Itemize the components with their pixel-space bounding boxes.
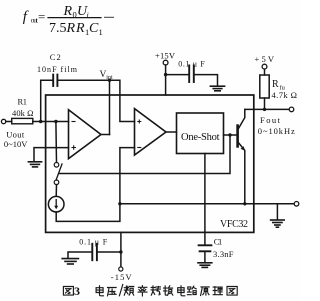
capacitor 0.1uF bottom plates <box>91 244 93 260</box>
wire comparator output to one-shot <box>166 131 177 133</box>
wire switch to current source <box>55 185 57 197</box>
ground (op-amp + input) <box>28 162 41 167</box>
svg-text:R1: R1 <box>18 97 28 107</box>
capacitor C2 plates <box>52 75 54 86</box>
current source I1 circle <box>48 196 64 212</box>
+5V terminal circle <box>262 64 267 69</box>
node dot base/control <box>228 133 231 136</box>
wire resistor to +5V <box>264 69 266 75</box>
svg-text:i: i <box>87 11 89 20</box>
wire op-amp + input to ground <box>34 148 69 162</box>
svg-text:10nF film: 10nF film <box>37 65 78 74</box>
node dot pull-up <box>263 108 266 111</box>
ground (common) <box>271 220 285 227</box>
wire comparator - input to common <box>120 148 135 204</box>
svg-text:C: C <box>89 21 99 36</box>
wire input to R1 <box>6 121 12 123</box>
svg-text:0~10kHz: 0~10kHz <box>258 126 295 136</box>
one-shot timing wire to C1 <box>204 154 206 245</box>
node dot +15V cap branch <box>164 73 167 76</box>
comparator U2 triangle <box>135 109 167 155</box>
wire to bypass cap <box>166 74 189 76</box>
-15V wire from box bottom <box>120 232 122 266</box>
collector rail to Fout <box>245 108 289 110</box>
svg-text:+15V: +15V <box>155 51 176 61</box>
common ground stem <box>276 204 278 220</box>
stray dash right of formula <box>105 16 114 18</box>
svg-text:One-Shot: One-Shot <box>181 132 220 143</box>
wire R1 to op-amp input <box>33 121 69 123</box>
svg-text:3: 3 <box>74 284 80 298</box>
transistor Q1 base bar <box>236 126 239 147</box>
wire one-shot to transistor base <box>224 134 238 136</box>
resistor R1 <box>12 118 33 123</box>
svg-text:C1: C1 <box>214 237 223 247</box>
wire current source to common <box>56 204 120 222</box>
wire cap to ground left <box>68 252 91 258</box>
one-shot U3 box <box>177 113 224 154</box>
op-amp U1 plus mark <box>72 146 75 149</box>
caption figure 3 chinese text <box>63 284 237 298</box>
wire C1 to ground <box>204 252 206 262</box>
wire to bottom bypass cap <box>98 251 121 253</box>
svg-text:Fout: Fout <box>260 115 281 125</box>
svg-text:0.1 μ F: 0.1 μ F <box>178 60 205 69</box>
svg-text:0~10V: 0~10V <box>4 139 28 149</box>
transistor Q1 emitter <box>238 142 245 204</box>
svg-text:0.1 μ F: 0.1 μ F <box>79 237 108 246</box>
wire Vint to comparator + input <box>110 80 135 121</box>
+15V terminal circle <box>163 60 168 65</box>
svg-text:=: = <box>38 9 45 24</box>
svg-text:C2: C2 <box>50 52 61 62</box>
svg-text:R: R <box>272 79 279 90</box>
transistor Q1 emitter arrow <box>241 146 245 150</box>
node dot switch branch <box>54 120 57 123</box>
wire +15V to box top <box>165 65 167 95</box>
op-amp U1 minus mark <box>72 121 75 123</box>
capacitor C2 vertical wire <box>41 80 53 121</box>
node dot -15V cap branch <box>119 250 122 253</box>
wire C2 to Vint node <box>58 79 109 81</box>
svg-text:+5V: +5V <box>255 54 275 64</box>
svg-text:7.5: 7.5 <box>49 21 67 36</box>
capacitor C1 plates <box>199 244 212 246</box>
wire op-amp output to vertical <box>101 134 110 136</box>
op-amp U1 integrator triangle <box>69 110 102 159</box>
Fout terminal circle <box>289 107 294 112</box>
svg-text:3.3nF: 3.3nF <box>213 249 234 259</box>
switch S1 top contact <box>54 163 59 168</box>
common line <box>120 203 294 205</box>
-15V terminal circle <box>119 267 123 271</box>
comparator U2 minus mark <box>138 147 141 149</box>
ground (top bypass) <box>210 86 224 91</box>
formula fraction bar <box>48 17 101 19</box>
wire cap to ground <box>195 75 218 86</box>
resistor Rfu pull-up <box>260 75 269 98</box>
svg-text:VFC32: VFC32 <box>220 219 248 230</box>
switch control line from one-shot <box>59 135 230 174</box>
node dot common-left <box>118 202 121 205</box>
svg-text:4.7k Ω: 4.7k Ω <box>272 90 298 100</box>
wire input node down to switch <box>55 122 58 163</box>
formula f_out = R0*Ui / 7.5*R*R1*C1 <box>23 4 103 37</box>
svg-text:40k Ω: 40k Ω <box>12 108 34 118</box>
current source I1 arrow <box>55 200 57 207</box>
svg-text:-15V: -15V <box>111 272 133 282</box>
wire Vint down to op-amp output <box>109 80 111 134</box>
common terminal circle <box>294 202 299 207</box>
switch S1 arm <box>56 164 62 180</box>
label Vint <box>100 70 113 81</box>
node Vint dot <box>108 79 111 82</box>
VFC32 IC boundary box <box>46 95 254 232</box>
svg-text:R: R <box>75 21 85 36</box>
switch S1 bottom contact <box>54 180 59 185</box>
wire resistor to rail <box>264 98 266 109</box>
ground (bottom bypass) <box>62 259 78 264</box>
input terminal circle <box>1 119 5 123</box>
svg-text:R: R <box>66 21 76 36</box>
label Rfu <box>272 79 286 92</box>
comparator U2 plus mark <box>138 120 141 123</box>
ground (C1) <box>198 263 212 268</box>
capacitor 0.1uF top plates <box>188 65 190 82</box>
node dot C2 branch <box>39 120 42 123</box>
svg-text:R: R <box>63 4 73 19</box>
node dot emitter-common <box>243 202 246 205</box>
transistor Q1 collector <box>238 109 245 130</box>
svg-text:1: 1 <box>99 27 103 37</box>
